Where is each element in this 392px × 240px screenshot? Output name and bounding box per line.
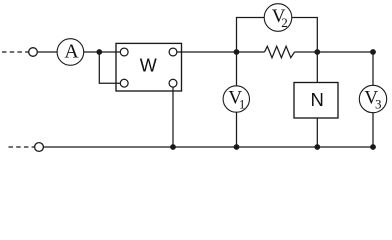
wattmeter W	[116, 43, 182, 91]
node rail-wattmeter junction	[170, 144, 176, 150]
wattmeter terminal 1	[120, 48, 128, 56]
wire wattmeter output to resistor	[173, 51, 265, 53]
wire node B to N box top	[316, 52, 318, 83]
wattmeter terminal 2	[169, 48, 177, 56]
ammeter A	[57, 39, 84, 66]
svg-text:3: 3	[375, 97, 382, 112]
terminal bottom input	[35, 143, 44, 152]
wire voltmeter V3 branch	[372, 52, 374, 147]
wire voltmeter V1 branch	[236, 52, 238, 147]
svg-text:2: 2	[281, 15, 288, 30]
wattmeter terminal 4	[169, 79, 177, 87]
svg-text:W: W	[140, 55, 157, 75]
load box N	[294, 83, 338, 119]
wire voltage-coil jumper	[99, 52, 124, 83]
voltmeter V3	[359, 85, 386, 112]
wire bottom dashed lead-in	[9, 146, 35, 148]
terminal top input	[29, 48, 38, 57]
node rail-V1 junction	[234, 144, 240, 150]
node junction ammeter-wattmeter	[96, 49, 102, 55]
wire terminal to ammeter	[37, 51, 57, 53]
wire voltmeter V2 loop	[237, 18, 318, 53]
resistor R	[265, 46, 295, 57]
svg-text:N: N	[311, 89, 324, 110]
node rail-N junction	[314, 144, 320, 150]
svg-text:1: 1	[239, 97, 246, 112]
voltmeter V2	[264, 4, 292, 32]
svg-text:A: A	[64, 40, 79, 62]
node B resistor right junction	[314, 49, 320, 55]
wire N box bottom to rail	[316, 118, 318, 147]
wire top dashed lead-in	[2, 51, 29, 53]
wire wattmeter down lead	[172, 83, 174, 147]
wattmeter terminal 3	[120, 79, 128, 87]
voltmeter V1	[223, 86, 249, 112]
wire ammeter to junction A	[84, 51, 125, 53]
node top-right corner	[370, 49, 376, 55]
wire bottom rail	[43, 146, 373, 148]
node bottom-right corner	[370, 144, 376, 150]
wire resistor to node B	[295, 51, 318, 53]
wire node B to top-right corner	[317, 51, 373, 53]
node A resistor left junction	[234, 49, 240, 55]
